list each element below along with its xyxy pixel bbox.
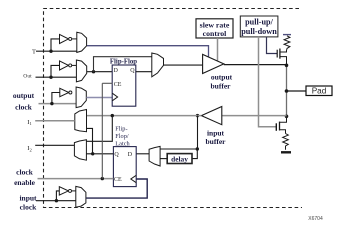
svg-text:slew rate: slew rate	[200, 20, 230, 29]
wire T to inverter	[51, 39, 60, 51]
node pad input junction	[285, 115, 289, 119]
wire mux to output buffer	[164, 64, 203, 66]
wire delay out	[160, 158, 167, 160]
wire to pad box	[287, 90, 307, 92]
resistor pull-down	[283, 134, 289, 150]
svg-text:Flip-Flop: Flip-Flop	[110, 58, 137, 65]
svg-text:buffer: buffer	[206, 137, 227, 146]
inverter T path	[60, 34, 69, 43]
svg-text:buffer: buffer	[211, 81, 232, 90]
node direct input junction	[111, 114, 114, 117]
transistor Q1 pull-up	[276, 50, 278, 58]
op-amp output buffer	[203, 54, 224, 73]
svg-text:clock: clock	[16, 167, 33, 176]
svg-text:CE: CE	[114, 177, 122, 183]
wire pad to input buffer	[222, 115, 287, 117]
wire clock enable riser	[101, 83, 103, 178]
mux input clock select	[76, 186, 86, 207]
pin clock chevron output FF	[112, 93, 117, 100]
mux input D select	[149, 146, 160, 166]
wire I1 output	[35, 120, 75, 122]
box pull-up pull-down	[240, 16, 278, 37]
transistor Q2 pull-down	[275, 123, 277, 131]
mux I2 select	[74, 140, 86, 161]
wire Out input	[36, 76, 77, 78]
wire output buffer to pad	[224, 64, 287, 66]
op-amp input buffer	[201, 107, 221, 125]
node input clock junction	[55, 199, 58, 202]
wire input to delay junction	[197, 116, 199, 149]
box slew rate control	[196, 19, 233, 38]
wire inverter to mux	[72, 190, 77, 192]
wire output clock to inverter	[52, 93, 60, 104]
svg-text:Pad: Pad	[312, 87, 327, 96]
mux I1 select	[75, 110, 87, 132]
flip-flop U2 input latch	[113, 147, 136, 187]
mux T select	[77, 32, 87, 52]
mux output clock select	[76, 87, 86, 108]
wire CE pin output FF	[102, 82, 112, 84]
wire Out bypass to output mux	[94, 57, 152, 72]
svg-text:control: control	[203, 29, 228, 38]
svg-text:Flop/: Flop/	[115, 133, 129, 140]
svg-text:T: T	[32, 48, 36, 55]
wire slew rate to output buffer	[217, 38, 219, 61]
mux Out select	[76, 60, 86, 82]
node pad junction	[285, 89, 289, 93]
svg-text:delay: delay	[171, 154, 188, 163]
ground	[281, 151, 291, 153]
svg-text:Out: Out	[23, 73, 32, 79]
wire I2 output	[35, 144, 74, 146]
svg-text:pull-up/: pull-up/	[245, 18, 273, 27]
node Out junction	[49, 76, 52, 79]
wire input clock to FF clock pin	[86, 179, 147, 198]
wire Out mux to FF D	[87, 71, 112, 73]
wire T tri-state control	[87, 46, 209, 58]
svg-text:clock: clock	[20, 203, 37, 212]
node clock enable junction	[101, 177, 104, 180]
node T junction	[49, 50, 52, 53]
mux output select	[152, 53, 164, 77]
IOB boundary dashed border	[44, 9, 303, 208]
node delay junction	[196, 147, 199, 150]
svg-text:D: D	[128, 152, 133, 158]
svg-text:output: output	[211, 73, 233, 82]
wire direct input	[87, 115, 202, 117]
wire FF Q to output mux	[136, 71, 152, 73]
node output clock junction	[50, 102, 53, 105]
svg-text:Latch: Latch	[115, 140, 130, 147]
wire output clock input	[39, 103, 77, 105]
svg-text:D: D	[114, 68, 119, 74]
node input buffer junction	[196, 114, 199, 117]
VCC rail tick	[283, 34, 291, 36]
wire pull-up control	[267, 37, 278, 54]
wire D mux to FF D	[136, 153, 149, 155]
wire T input	[36, 50, 77, 52]
node Out D junction	[92, 70, 95, 73]
resistor pull-up	[284, 36, 290, 50]
svg-text:output: output	[13, 91, 35, 100]
wire clock enable	[38, 178, 114, 180]
pin clock chevron input FF	[131, 175, 136, 182]
wire inverter to mux	[72, 38, 77, 40]
node pad output junction	[285, 64, 289, 68]
svg-text:input: input	[19, 193, 37, 202]
box delay	[167, 154, 192, 164]
flip-flop U1 output	[112, 65, 136, 106]
wire to delay box	[192, 149, 197, 159]
svg-text:pull-down: pull-down	[241, 27, 277, 36]
svg-text:Q: Q	[130, 68, 135, 74]
svg-text:X6704: X6704	[308, 216, 323, 222]
wire input clock to inverter	[56, 191, 59, 201]
wire pull-down control	[259, 37, 277, 127]
svg-text:enable: enable	[14, 178, 36, 187]
svg-text:Q: Q	[114, 152, 119, 158]
node Q riser junction	[91, 152, 94, 155]
wire inverter to mux	[72, 64, 77, 66]
wire pad net vertical	[286, 65, 288, 116]
inverter input clock	[59, 187, 68, 195]
wire direct to D mux	[160, 148, 197, 150]
inverter output clock	[60, 88, 69, 96]
svg-text:Flip-: Flip-	[115, 125, 127, 132]
wire output clock to FF clock pin	[86, 97, 112, 99]
box Pad	[306, 86, 332, 96]
wire Q riser to I1 mux	[87, 128, 93, 153]
svg-text:clock: clock	[15, 103, 32, 112]
wire Out to inverter	[51, 65, 60, 77]
wire FF Q to I2 mux	[87, 153, 114, 155]
inverter Out path	[60, 61, 69, 70]
wire direct input to I2 mux	[87, 116, 113, 142]
wire input clock	[36, 200, 76, 202]
svg-text:CE: CE	[114, 82, 122, 88]
